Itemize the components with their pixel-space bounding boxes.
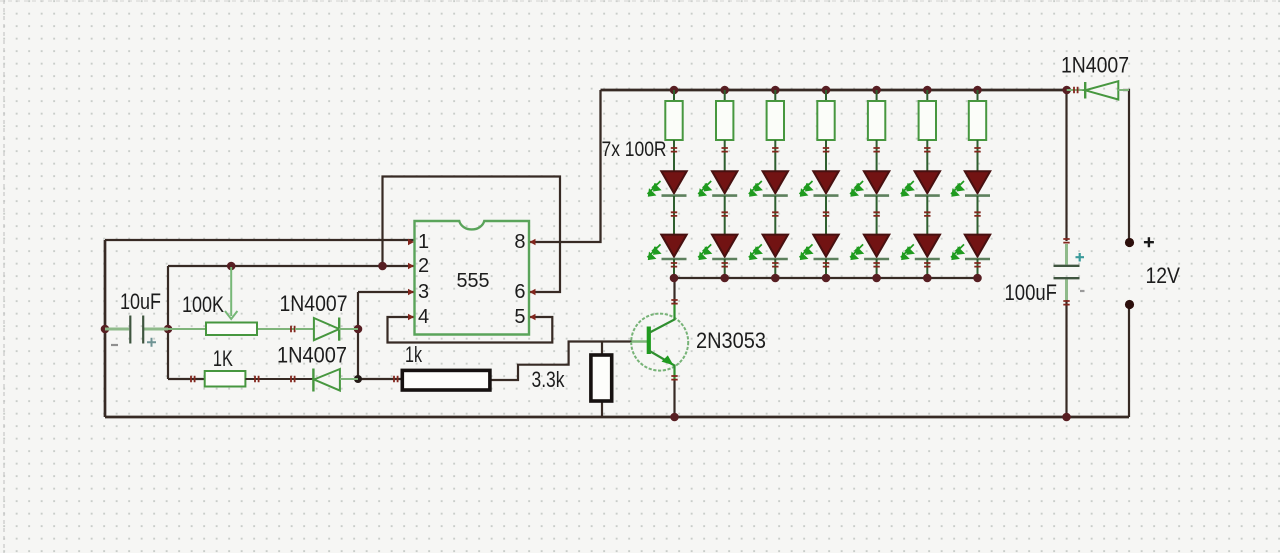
wire LED col1 to anode rail bbox=[673, 259, 675, 278]
pin stub col3 lower bbox=[772, 263, 778, 267]
resistor R2 1K bbox=[191, 371, 314, 387]
wire LED col4 to anode rail bbox=[825, 259, 827, 278]
pin 5 stub bbox=[530, 314, 536, 320]
LED D5a (top row) bbox=[850, 171, 889, 196]
svg-text:1: 1 bbox=[418, 231, 429, 253]
svg-text:100uF: 100uF bbox=[1005, 280, 1058, 305]
LED D1b (bottom row) bbox=[648, 235, 687, 260]
resistor 100R #6 bbox=[919, 90, 936, 172]
svg-text:1N4007: 1N4007 bbox=[1061, 53, 1129, 78]
terminal + (12V positive) bbox=[1125, 238, 1134, 247]
junction dot top rail col4 bbox=[822, 86, 831, 95]
junction dot 10uF / pin2 vertical bbox=[164, 325, 173, 334]
pin stub col4 lower bbox=[823, 263, 829, 267]
svg-text:4: 4 bbox=[418, 306, 429, 328]
pin 2 stub bbox=[408, 263, 414, 269]
transistor Q1 2N3053 bbox=[631, 300, 688, 380]
pin stub col6 lower bbox=[924, 263, 930, 267]
diode D2 1N4007 (lower) bbox=[313, 369, 358, 392]
wire collector to LED rail bbox=[673, 278, 675, 303]
LED D5b (bottom row) bbox=[850, 235, 889, 260]
junction dot top rail col2 bbox=[720, 86, 729, 95]
svg-text:10uF: 10uF bbox=[120, 289, 161, 314]
junction dot anode rail col3 bbox=[771, 274, 780, 283]
wire pin1 net (left rail to 555 pin1) bbox=[105, 239, 414, 241]
wire pin2 net bbox=[168, 265, 414, 267]
junction dot 100uF on ground rail bbox=[1062, 413, 1071, 422]
junction dot anode rail col1 bbox=[670, 274, 679, 283]
pin stubs col2 middle bbox=[722, 212, 728, 216]
LED D3b (bottom row) bbox=[749, 235, 788, 260]
wire left vertical rail bbox=[104, 240, 107, 417]
pin 1 stub bbox=[408, 239, 414, 245]
wire top-right corner down to + terminal bbox=[1123, 90, 1129, 243]
wire LED col2 to anode rail bbox=[724, 259, 726, 278]
junction dot pin2/pin6 link bbox=[378, 262, 387, 271]
svg-text:5: 5 bbox=[514, 306, 525, 328]
terminal - (12V negative) bbox=[1125, 300, 1134, 309]
potentiometer R1 100K bbox=[168, 267, 295, 335]
svg-text:7x 100R: 7x 100R bbox=[602, 138, 667, 161]
junction dot left rail / 10uF bbox=[101, 325, 110, 334]
LED D7b (bottom row) bbox=[951, 235, 990, 260]
LED D2b (bottom row) bbox=[698, 235, 737, 260]
IC U1 555 timer body bbox=[415, 221, 530, 335]
wire LED col1 middle bbox=[673, 196, 675, 235]
wire LED col5 middle bbox=[876, 196, 878, 235]
svg-text:1N4007: 1N4007 bbox=[280, 291, 348, 316]
LED D2a (top row) bbox=[698, 171, 737, 196]
junction dot lower diode node bbox=[354, 375, 362, 383]
resistor 100R #3 bbox=[767, 90, 784, 172]
wire LED col7 to anode rail bbox=[977, 259, 979, 278]
svg-text:2: 2 bbox=[418, 255, 429, 277]
junction dot emitter on ground rail bbox=[670, 413, 679, 422]
resistor 100R #1 bbox=[665, 90, 682, 172]
wire LED col2 middle bbox=[724, 196, 726, 235]
wire top supply rail bbox=[601, 89, 1067, 92]
wire LED col3 to anode rail bbox=[774, 259, 776, 278]
LED D7a (top row) bbox=[951, 171, 990, 196]
svg-text:8: 8 bbox=[514, 231, 525, 253]
junction dot anode rail col5 bbox=[872, 274, 881, 283]
pin 3 stub bbox=[408, 289, 414, 295]
junction dot anode rail col4 bbox=[822, 274, 831, 283]
wire LED col5 to anode rail bbox=[876, 259, 878, 278]
wire - terminal down to bottom rail bbox=[1128, 305, 1130, 417]
junction dot top rail col7 bbox=[973, 86, 982, 95]
wire 1k resistor to transistor base bbox=[490, 342, 632, 381]
capacitor C1 10uF bbox=[105, 316, 168, 347]
junction dot anode rail col6 bbox=[923, 274, 932, 283]
resistor 100R #4 bbox=[817, 90, 834, 172]
wire LED col7 middle bbox=[977, 196, 979, 235]
wire LED col6 middle bbox=[926, 196, 928, 235]
wire LED col6 to anode rail bbox=[926, 259, 928, 278]
wire vertical joining diode nodes to pin3 net bbox=[357, 292, 359, 379]
wire 1K branch left segment bbox=[168, 378, 205, 380]
resistor R3 1k bbox=[394, 370, 490, 390]
wire bottom ground rail bbox=[105, 416, 1129, 419]
svg-text:3.3k: 3.3k bbox=[532, 367, 566, 392]
svg-text:2N3053: 2N3053 bbox=[696, 328, 766, 353]
pin stubs col5 middle bbox=[873, 212, 879, 216]
LED D1a (top row) bbox=[648, 171, 687, 196]
LED D3a (top row) bbox=[749, 171, 788, 196]
label + sign bbox=[1144, 237, 1154, 247]
pin stubs col7 middle bbox=[974, 212, 980, 216]
junction dot top rail / 100uF and diode bbox=[1062, 86, 1071, 95]
resistor 100R #2 bbox=[716, 90, 733, 172]
pin stub col2 lower bbox=[722, 263, 728, 267]
junction dot top rail col6 bbox=[923, 86, 932, 95]
wire pin4-pin5 U link under the 555 bbox=[388, 317, 553, 343]
pin stub col5 lower bbox=[873, 263, 879, 267]
svg-text:1N4007: 1N4007 bbox=[277, 343, 347, 368]
pin stubs col3 middle bbox=[772, 212, 778, 216]
wire 100uF bottom to rail bbox=[1065, 300, 1067, 417]
junction dot top rail col5 bbox=[872, 86, 881, 95]
pin stubs col6 middle bbox=[924, 212, 930, 216]
diode D1 1N4007 (upper) bbox=[295, 318, 358, 341]
svg-text:100K: 100K bbox=[182, 292, 224, 317]
wire pin2-to-pin6 link over the 555 bbox=[383, 177, 561, 293]
svg-text:1K: 1K bbox=[213, 346, 233, 371]
pin 8 stub bbox=[530, 239, 536, 245]
svg-text:3: 3 bbox=[418, 281, 429, 303]
LED D4b (bottom row) bbox=[800, 235, 839, 260]
diode D3 1N4007 (top right) bbox=[1067, 81, 1129, 99]
LED D4a (top row) bbox=[800, 171, 839, 196]
pin stubs col4 middle bbox=[823, 212, 829, 216]
wire emitter to ground rail bbox=[673, 380, 675, 417]
svg-text:6: 6 bbox=[514, 281, 525, 303]
wire diode junction to 1k resistor bbox=[358, 378, 402, 380]
wire pin8 net to top rail bbox=[529, 90, 601, 242]
wire 3.3k bottom to ground rail bbox=[601, 401, 603, 417]
pin 4 stub bbox=[408, 314, 414, 320]
pin stubs col1 middle bbox=[671, 212, 677, 216]
pin 6 stub bbox=[530, 289, 536, 295]
wire LED col4 middle bbox=[825, 196, 827, 235]
wire 3.3k top connection bbox=[601, 342, 603, 356]
resistor 100R #5 bbox=[868, 90, 885, 172]
LED D6b (bottom row) bbox=[901, 235, 940, 260]
junction dot pin2/pot wiper bbox=[227, 262, 236, 271]
wire pin3 net bbox=[358, 291, 414, 293]
pin stub col1 lower bbox=[671, 263, 677, 267]
resistor 100R #7 bbox=[969, 90, 986, 172]
pin stub col7 lower bbox=[974, 263, 980, 267]
LED D6a (top row) bbox=[901, 171, 940, 196]
wire LED col3 middle bbox=[774, 196, 776, 235]
junction dot top rail col3 bbox=[771, 86, 780, 95]
svg-text:12V: 12V bbox=[1146, 263, 1181, 288]
wire vertical from pin2 net down to capacitor node and 1K branch bbox=[167, 266, 169, 379]
svg-text:555: 555 bbox=[457, 270, 490, 292]
svg-text:1k: 1k bbox=[405, 342, 423, 367]
capacitor C2 100uF bbox=[1054, 239, 1085, 305]
resistor R4 3.3k bbox=[591, 355, 612, 401]
wire LED anode bottom rail bbox=[674, 277, 978, 279]
junction dot anode rail col7 bbox=[973, 274, 982, 283]
wire 100uF top from rail bbox=[1065, 90, 1067, 241]
junction dot top rail col1 bbox=[670, 86, 679, 95]
junction dot upper diode node bbox=[354, 325, 363, 334]
junction dot anode rail col2 bbox=[720, 274, 729, 283]
